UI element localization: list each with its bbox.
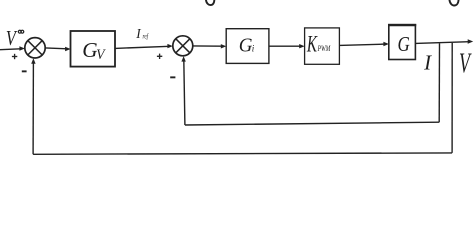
arrowhead up into S1	[31, 58, 35, 64]
arrowhead into S2	[167, 44, 173, 48]
block Gi	[226, 29, 269, 64]
wire S1 to GV	[45, 47, 67, 50]
svg-text:I: I	[423, 51, 432, 75]
block GV	[71, 31, 116, 67]
svg-text:G: G	[398, 33, 410, 56]
svg-text:PWM: PWM	[317, 45, 332, 53]
svg-text:ref: ref	[143, 33, 150, 41]
wire G to output	[415, 42, 469, 44]
wire inner feedback up to S2	[184, 60, 185, 126]
arrowhead into KPWM	[299, 44, 305, 48]
arrowhead into GV	[65, 47, 71, 51]
arrowhead output right	[468, 39, 474, 43]
summing junction S2	[173, 36, 193, 56]
minus sign S1	[22, 70, 27, 72]
wire outer feedback bottom	[33, 153, 452, 154]
svg-text:i: i	[252, 44, 255, 54]
svg-text:V: V	[96, 47, 106, 64]
wire outer feedback up to S1	[32, 62, 34, 155]
label plus S2	[157, 54, 162, 59]
arrowhead up into S2	[181, 56, 185, 62]
svg-text:I: I	[135, 26, 141, 41]
wire GV to S2	[115, 46, 169, 48]
wire inner feedback bottom	[185, 122, 439, 125]
arrowhead into G	[383, 42, 389, 46]
wire node I down	[438, 43, 440, 122]
wire node V down	[451, 43, 453, 153]
wire Gi to KPWM	[269, 45, 301, 47]
wire input V*	[0, 48, 21, 51]
block KPWM	[305, 28, 340, 64]
svg-text:V: V	[459, 48, 472, 79]
block G	[389, 25, 416, 60]
minus sign S2	[170, 76, 175, 78]
svg-text:G: G	[239, 35, 253, 56]
caption descender g (left)	[206, 0, 215, 5]
svg-text:G: G	[82, 38, 97, 62]
arrowhead into S1	[19, 46, 25, 50]
summing junction S1	[25, 38, 45, 58]
wire KPWM to G	[339, 44, 385, 45]
svg-text:K: K	[306, 33, 318, 58]
svg-text:V: V	[6, 27, 18, 50]
arrowhead into Gi	[221, 44, 227, 48]
caption descender g (right)	[449, 0, 458, 6]
wire S2 to Gi	[193, 45, 223, 47]
label plus S1	[12, 54, 17, 59]
